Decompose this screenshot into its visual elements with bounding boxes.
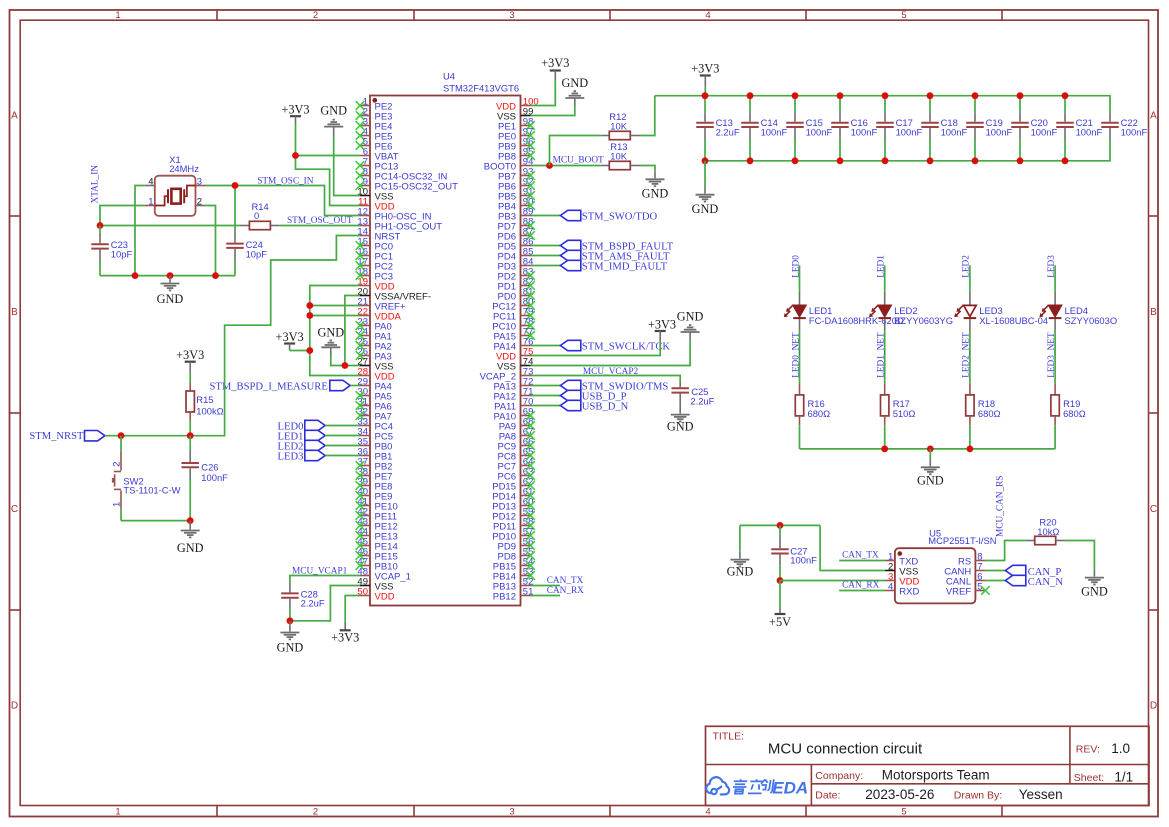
U4 pin 32 PA7 [356, 406, 392, 422]
power +3V3 NRST pullup [176, 348, 204, 373]
U4 pin 24 PA1 [356, 326, 392, 342]
svg-text:TITLE:: TITLE: [713, 731, 745, 743]
wire X1 pin1 to C23/R14 node [100, 206, 145, 226]
U4 pin 47 PB10 [356, 556, 398, 572]
svg-text:C: C [1150, 504, 1157, 515]
U4 pin 77 PA15 [493, 326, 534, 342]
U4 pin 71 PA12 [493, 386, 533, 402]
svg-text:1: 1 [112, 502, 123, 507]
svg-text:GND: GND [320, 104, 347, 118]
svg-text:10K: 10K [610, 120, 627, 131]
U4 pin 41 PE10 [356, 496, 398, 512]
junction led rail 1 [881, 446, 888, 453]
ground C25 [667, 415, 694, 434]
wire gnd bottom rail [705, 139, 1110, 161]
net label CAN_RX U5 [839, 580, 885, 590]
capacitor C14 100nF [741, 96, 787, 161]
U4 pin 87 PD6 [498, 226, 535, 242]
ground pin99 (inverted) [531, 76, 589, 115]
wire RS to R20 [985, 541, 1026, 561]
junction C17 top [882, 92, 889, 99]
resistor R14 [240, 201, 280, 230]
port STM_BSPD_FAULT [531, 240, 674, 252]
svg-text:24MHz: 24MHz [169, 163, 199, 174]
wire GND to VSS pin10 [334, 137, 360, 196]
svg-text:Motorsports Team: Motorsports Team [882, 767, 990, 782]
U4 pin 46 PE15 [356, 546, 398, 562]
U4 pin 78 PC10 [492, 316, 535, 332]
svg-text:CAN_TX: CAN_TX [547, 576, 584, 586]
U4 pin 68 PA9 [499, 416, 535, 432]
U4 pin 7 PC13 [356, 156, 399, 172]
svg-text:Date:: Date: [815, 790, 840, 802]
svg-text:MCU_BOOT: MCU_BOOT [553, 156, 604, 166]
U4 pin 76 PA14 [493, 336, 533, 352]
svg-text:100nF: 100nF [941, 127, 968, 138]
U4 pin 58 PD11 [493, 516, 535, 532]
wire VCAP_2 to C25 [531, 376, 681, 383]
svg-text:+3V3: +3V3 [176, 348, 204, 362]
U4 pin 38 PE7 [356, 466, 393, 482]
port STM_SWDIO/TMS [531, 380, 669, 392]
svg-text:1/1: 1/1 [1114, 769, 1133, 784]
wire X1 pin2 to ground rail [206, 206, 216, 276]
wire LED2_NET [969, 331, 971, 384]
junction C14 bottom [747, 157, 754, 164]
junction NRST-C26 [187, 432, 194, 439]
svg-text:4: 4 [705, 10, 710, 21]
svg-text:LED1_NET: LED1_NET [877, 332, 887, 378]
svg-text:100nF: 100nF [986, 127, 1013, 138]
U4 pin 54 PB15 [493, 556, 535, 572]
wire C27 top rail [740, 524, 820, 526]
svg-text:2023-05-26: 2023-05-26 [865, 787, 934, 802]
resistor R19 680Ω [1051, 383, 1086, 425]
svg-text:2.2uF: 2.2uF [690, 395, 714, 406]
ground R20 [1081, 570, 1108, 598]
port USB_D_N [531, 400, 629, 412]
svg-text:STM_NRST: STM_NRST [29, 431, 84, 442]
U4 pin 72 PA13 [493, 376, 533, 392]
junction C13 bottom [702, 157, 709, 164]
capacitor C24 [226, 231, 267, 276]
wire STM_OSC_IN [206, 186, 361, 216]
wire 3V3 top rail [655, 96, 1110, 113]
wire LED2 stub [969, 265, 971, 291]
switch SW2 TS-1101-C-W [112, 436, 181, 521]
junction VBAT node [292, 152, 299, 159]
U4 pin 95 PB8 [498, 146, 535, 162]
capacitor C25 [671, 382, 714, 414]
capacitor C18 100nF [921, 96, 967, 161]
wire VDD/VREF vertical node [310, 286, 360, 376]
U4 pin 96 PB9 [498, 136, 535, 152]
U4 pin 21 VREF+ [357, 296, 405, 312]
wire LED1_NET [884, 331, 886, 384]
U4 pin 22 VDDA [357, 306, 401, 322]
junction C20 top [1017, 92, 1024, 99]
svg-text:2.2uF: 2.2uF [301, 598, 325, 609]
svg-text:100nF: 100nF [896, 127, 923, 138]
power +3V3 top of U4 [281, 102, 309, 124]
wire R20 to GND [1065, 541, 1095, 570]
capacitor C15 100nF [786, 96, 832, 161]
U4 pin 4 PE5 [356, 126, 393, 142]
junction C21 bottom [1062, 157, 1069, 164]
U4 pin 17 PC2 [356, 256, 393, 272]
junction pin2-gnd [212, 272, 219, 279]
ground crystal [157, 276, 184, 307]
svg-text:680Ω: 680Ω [808, 408, 831, 419]
U4 pin 43 PE12 [356, 516, 398, 532]
svg-text:RXD: RXD [899, 586, 919, 597]
junction C21 top [1062, 92, 1069, 99]
ground LED rail [917, 449, 944, 487]
svg-text:STM_BSPD_I_MEASURE: STM_BSPD_I_MEASURE [209, 381, 327, 392]
svg-text:4: 4 [888, 581, 893, 592]
svg-text:GND: GND [317, 325, 344, 339]
svg-text:STM_SWCLK/TCK: STM_SWCLK/TCK [582, 342, 671, 353]
junction C17 bottom [882, 157, 889, 164]
svg-text:STM_OSC_OUT: STM_OSC_OUT [287, 216, 353, 226]
svg-text:1: 1 [115, 807, 120, 818]
svg-text:GND: GND [667, 420, 694, 434]
power +3V3 cap bank [691, 61, 719, 95]
U4 pin 69 PA10 [493, 406, 534, 422]
U4 pin 15 PC0 [356, 236, 393, 252]
svg-text:LED0_NET: LED0_NET [791, 332, 801, 378]
U4 pin 31 PA6 [356, 396, 392, 412]
junction VSS node [342, 362, 349, 369]
title block [706, 726, 1150, 805]
power +3V3 pin75 [531, 318, 677, 356]
svg-text:Company:: Company: [815, 770, 863, 782]
svg-text:CAN_N: CAN_N [1028, 577, 1064, 588]
U4 pin 67 PA8 [499, 426, 535, 442]
U4 pin 34 PC5 [357, 426, 393, 442]
U4 pin 6 VBAT [360, 146, 399, 162]
svg-text:GND: GND [1081, 584, 1108, 598]
U4 pin 19 VDD [357, 276, 394, 292]
svg-text:GND: GND [727, 564, 754, 578]
wire LED1 stub [884, 265, 886, 291]
svg-text:5: 5 [901, 807, 906, 818]
svg-text:STM_OSC_IN: STM_OSC_IN [257, 176, 314, 186]
U4 pin 63 PC6 [498, 466, 535, 482]
svg-text:1: 1 [115, 10, 120, 21]
U4 pin 28 VDD [357, 366, 394, 382]
svg-text:100nF: 100nF [1121, 127, 1148, 138]
U4 pin 9 PC15-OSC32_OUT [356, 176, 458, 192]
svg-text:B: B [11, 307, 18, 318]
wire LED3 stub [1054, 265, 1056, 291]
U4 pin 99 VSS [497, 106, 533, 122]
U4 pin 51 PB12 [493, 586, 534, 602]
U4 pin 49 VSS [357, 576, 393, 592]
U4 pin 85 PD4 [498, 246, 534, 262]
svg-text:+3V3: +3V3 [541, 56, 569, 70]
svg-text:2: 2 [313, 807, 318, 818]
LED LED4 SZYY0603O [1039, 292, 1117, 331]
U5 pin 6 CANL [946, 571, 986, 587]
U4 pin 89 PB3 [498, 206, 533, 222]
junction led rail 2 [967, 446, 974, 453]
port CAN_N [985, 575, 1063, 588]
ground C27 left [727, 525, 754, 578]
svg-text:10K: 10K [610, 150, 627, 161]
U4 pin 65 PC8 [498, 446, 535, 462]
wire +3V3 to VBAT and VDD [296, 124, 361, 206]
wire X1 pin4 to ground rail [135, 186, 145, 276]
U4 pin 70 PA11 [494, 396, 533, 412]
wire LED ground rail [800, 448, 1056, 450]
svg-text:PB12: PB12 [493, 591, 516, 602]
junction C26 gnd [187, 517, 194, 524]
ground analog [317, 325, 344, 355]
U4 pin 13 PH1-OSC_OUT [357, 216, 442, 232]
wire LED3_NET [1054, 331, 1056, 384]
port CAN_P [985, 565, 1061, 578]
svg-text:REV:: REV: [1076, 743, 1100, 755]
svg-text:LED3_NET: LED3_NET [1047, 332, 1057, 378]
U4 pin 14 NRST [357, 226, 400, 242]
junction led rail gnd [927, 446, 934, 453]
port LED2 [278, 440, 360, 452]
capacitor C22 100nF [1101, 112, 1147, 139]
U4 pin 29 PA4 [357, 376, 391, 392]
capacitor C28 [281, 581, 325, 621]
wire STM_OSC_OUT rail [100, 225, 240, 227]
U4 pin 50 VDD [357, 586, 394, 602]
power +3V3 pin100 [531, 56, 570, 106]
junction VDDA [306, 312, 313, 319]
U5 pin 5 VREF [946, 581, 990, 597]
svg-text:A: A [1150, 111, 1157, 122]
U4 pin 60 PD13 [492, 496, 535, 512]
U4 pin 52 PB13 [493, 576, 534, 592]
port LED0 [278, 420, 360, 432]
svg-text:Drawn By:: Drawn By: [954, 790, 1002, 802]
svg-text:1: 1 [148, 196, 153, 207]
svg-text:10kΩ: 10kΩ [1037, 526, 1059, 537]
U4 pin 18 PC3 [356, 266, 393, 282]
LED LED1 FC-DA1608HRK-620D [784, 292, 904, 331]
ground VCAP1 [277, 621, 304, 655]
wire NRST net to pin14 [105, 236, 360, 436]
junction NRST-SW2 [118, 432, 125, 439]
wire BOOT0 to MCU_BOOT node [531, 165, 601, 167]
U4 pin 16 PC1 [356, 246, 393, 262]
svg-text:C: C [11, 504, 18, 515]
U4 pin 11 VDD [358, 196, 395, 212]
CAN transceiver U5 MCP2551T-I/SN body [895, 527, 997, 603]
U4 pin 93 PB7 [498, 166, 535, 182]
capacitor C21 100nF [1056, 96, 1102, 161]
U4 pin 53 PB14 [493, 566, 535, 582]
crystal X1 [145, 154, 206, 216]
U4 pin 3 PE4 [356, 116, 393, 132]
wire SW2 bottom to GND [121, 520, 190, 522]
U4 pin 74 VSS [497, 356, 533, 372]
junction C27 top [777, 522, 784, 529]
svg-text:CAN_TX: CAN_TX [842, 550, 879, 560]
U4 pin 80 PC12 [492, 296, 535, 312]
svg-text:3: 3 [509, 10, 514, 21]
wire MCU_BOOT to R12 [550, 136, 601, 166]
U4 pin 64 PC7 [498, 456, 535, 472]
resistor R15 100k [186, 373, 224, 421]
capacitor C23 [91, 226, 132, 276]
junction C28 gnd [287, 617, 294, 624]
svg-text:XTAL_IN: XTAL_IN [91, 165, 101, 204]
capacitor C16 100nF [831, 96, 877, 161]
U4 pin 42 PE11 [356, 506, 397, 522]
capacitor C19 100nF [966, 96, 1012, 161]
U4 pin 12 PH0-OSC_IN [357, 206, 431, 222]
junction pin4-gnd [132, 272, 139, 279]
junction C16 bottom [837, 157, 844, 164]
svg-text:EDA: EDA [772, 778, 808, 797]
svg-text:VDD: VDD [375, 591, 395, 602]
U4 pin 86 PD5 [498, 236, 534, 252]
svg-text:2: 2 [313, 10, 318, 21]
U4 pin 98 PE1 [498, 116, 535, 132]
power +5V [769, 608, 791, 630]
U4 pin 82 PD1 [498, 276, 535, 292]
U4 pin 5 PE6 [356, 136, 393, 152]
U4 pin 20 VSSA/VREF- [357, 286, 431, 302]
svg-text:5: 5 [901, 10, 906, 21]
U4 pin 25 PA2 [356, 336, 392, 352]
MCU U4 STM32F413VGT6 body [370, 70, 521, 605]
U4 pin 8 PC14-OSC32_IN [356, 166, 448, 182]
U4 pin 10 VSS [357, 186, 393, 202]
U4 pin 48 VCAP_1 [357, 566, 411, 582]
U4 pin 90 PB4 [498, 196, 535, 212]
node C23 top junction [97, 222, 104, 229]
U4 pin 1 PE2 [356, 96, 393, 112]
wire crystal ground rail [100, 275, 235, 277]
U4 pin 57 PD10 [492, 526, 535, 542]
junction C18 bottom [927, 157, 934, 164]
svg-text:4: 4 [148, 176, 153, 187]
U4 pin 79 PC11 [493, 306, 535, 322]
junction C16 top [837, 92, 844, 99]
wire VSS U5 [820, 525, 885, 570]
U4 pin 88 PD7 [498, 216, 535, 232]
U4 pin 97 PE0 [498, 126, 535, 142]
capacitor C13 2.2uF [696, 96, 740, 161]
svg-text:100nF: 100nF [851, 127, 878, 138]
svg-text:GND: GND [692, 202, 719, 216]
svg-text:100kΩ: 100kΩ [196, 405, 223, 416]
resistor R16 680Ω [795, 383, 830, 425]
U5 pin 4 RXD [885, 581, 920, 597]
U4 pin 2 PE3 [356, 106, 393, 122]
port STM_IMD_FAULT [531, 260, 668, 272]
svg-text:100nF: 100nF [201, 472, 228, 483]
U4 pin 56 PD9 [498, 536, 535, 552]
svg-text:MCU connection circuit: MCU connection circuit [768, 741, 923, 758]
junction C18 top [927, 92, 934, 99]
capacitor C26 [181, 436, 228, 521]
svg-text:CAN_RX: CAN_RX [842, 580, 879, 590]
wire OSC_IN to C24 [234, 186, 236, 231]
svg-text:10pF: 10pF [111, 249, 133, 260]
U4 pin 73 VCAP_2 [480, 366, 534, 382]
svg-text:STM_IMD_FAULT: STM_IMD_FAULT [582, 262, 668, 273]
svg-text:680Ω: 680Ω [978, 408, 1001, 419]
capacitor C27 [771, 525, 817, 580]
svg-text:BZYY0603YG: BZYY0603YG [894, 315, 953, 326]
svg-text:VREF: VREF [946, 586, 972, 597]
svg-text:FC-DA1608HRK-620D: FC-DA1608HRK-620D [809, 315, 904, 326]
svg-text:STM32F413VGT6: STM32F413VGT6 [443, 82, 519, 93]
net label CAN_TX pin52 [531, 576, 584, 586]
svg-text:D: D [11, 701, 18, 712]
svg-text:+3V3: +3V3 [331, 630, 359, 644]
U4 pin 91 PB5 [498, 186, 535, 202]
svg-text:1.0: 1.0 [1111, 741, 1130, 756]
junction C19 top [972, 92, 979, 99]
junction C27 bottom / VDD [777, 577, 784, 584]
svg-text:LED2_NET: LED2_NET [962, 332, 972, 378]
wire +3V3 analog to VDD node [290, 350, 310, 352]
junction gnd tap [167, 272, 174, 279]
resistor R20 10k [1026, 517, 1065, 545]
U4 pin 66 PC9 [498, 436, 535, 452]
svg-text:+3V3: +3V3 [691, 61, 719, 75]
ground R13 [642, 172, 669, 200]
U4 pin 37 PB2 [356, 456, 393, 472]
svg-text:CAN_RX: CAN_RX [547, 586, 584, 596]
svg-text:GND: GND [277, 641, 304, 655]
U4 pin 36 PB1 [357, 446, 392, 462]
resistor R13 10K [601, 141, 640, 170]
svg-text:GND: GND [642, 186, 669, 200]
wire R17 to gnd rail [884, 425, 886, 449]
U4 pin 100 VDD [496, 96, 539, 112]
wire to +5V [779, 581, 781, 608]
svg-text:100nF: 100nF [1031, 127, 1058, 138]
svg-text:0: 0 [254, 210, 259, 221]
port LED3 [278, 450, 360, 462]
LED LED2 BZYY0603YG [869, 292, 953, 331]
U4 pin 26 PA3 [356, 346, 392, 362]
wire GND to VSSA and VSS [331, 296, 360, 366]
svg-text:3: 3 [509, 807, 514, 818]
svg-text:STM_SWO/TDO: STM_SWO/TDO [582, 212, 658, 223]
junction 3V3 tap [306, 347, 313, 354]
junction 3V3-C13 [702, 92, 709, 99]
svg-text:100nF: 100nF [790, 555, 817, 566]
svg-text:100nF: 100nF [806, 127, 833, 138]
resistor R18 680Ω [966, 383, 1001, 425]
U4 pin 75 VDD [496, 346, 533, 362]
ground cap bank [692, 161, 719, 216]
svg-text:+5V: +5V [769, 615, 791, 629]
svg-text:2.2uF: 2.2uF [716, 127, 740, 138]
svg-text:R15: R15 [196, 394, 213, 405]
U4 pin 23 PA0 [356, 316, 392, 332]
svg-text:680Ω: 680Ω [1063, 408, 1086, 419]
svg-text:100nF: 100nF [761, 127, 788, 138]
port STM_BSPD_I_MEASURE [209, 380, 360, 392]
junction C14 top [747, 92, 754, 99]
U4 pin 61 PD14 [492, 486, 535, 502]
U5 pin 2 VSS [885, 561, 918, 577]
JLC EDA logo [706, 777, 808, 797]
